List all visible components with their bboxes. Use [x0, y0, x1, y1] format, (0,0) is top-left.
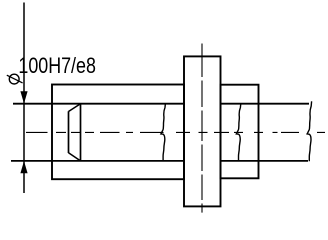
right bushing (hub) outline — [221, 85, 259, 179]
diameter symbol (rotated) — [7, 74, 23, 84]
chamfer edge line — [80, 104, 82, 161]
horizontal axis centerline — [26, 131, 325, 133]
vertical axis centerline of flange — [201, 44, 203, 213]
shaft / bore bottom line (left segment, also bottom extension line) — [11, 160, 184, 162]
flange (collar) outline — [184, 56, 221, 206]
shaft / bore top line (left segment, also top extension line) — [13, 103, 184, 105]
break squiggle at shaft right end — [307, 101, 312, 161]
dimension arrow (lower, pointing up) — [20, 161, 27, 173]
chamfer slant top — [69, 104, 81, 112]
shaft top line (right segment) — [221, 103, 310, 105]
break squiggle in shaft (left hub) — [161, 104, 166, 161]
chamfer slant bottom — [69, 153, 81, 161]
dimension line — [23, 3, 25, 194]
svg-text:100H7/e8: 100H7/e8 — [18, 53, 96, 78]
shaft bottom line (right segment) — [221, 160, 309, 162]
left bushing (hub) outline — [52, 85, 184, 180]
break squiggle in shaft (right hub) — [236, 104, 241, 161]
dimension arrow (upper, pointing down) — [20, 91, 27, 103]
shaft end face — [68, 111, 70, 153]
